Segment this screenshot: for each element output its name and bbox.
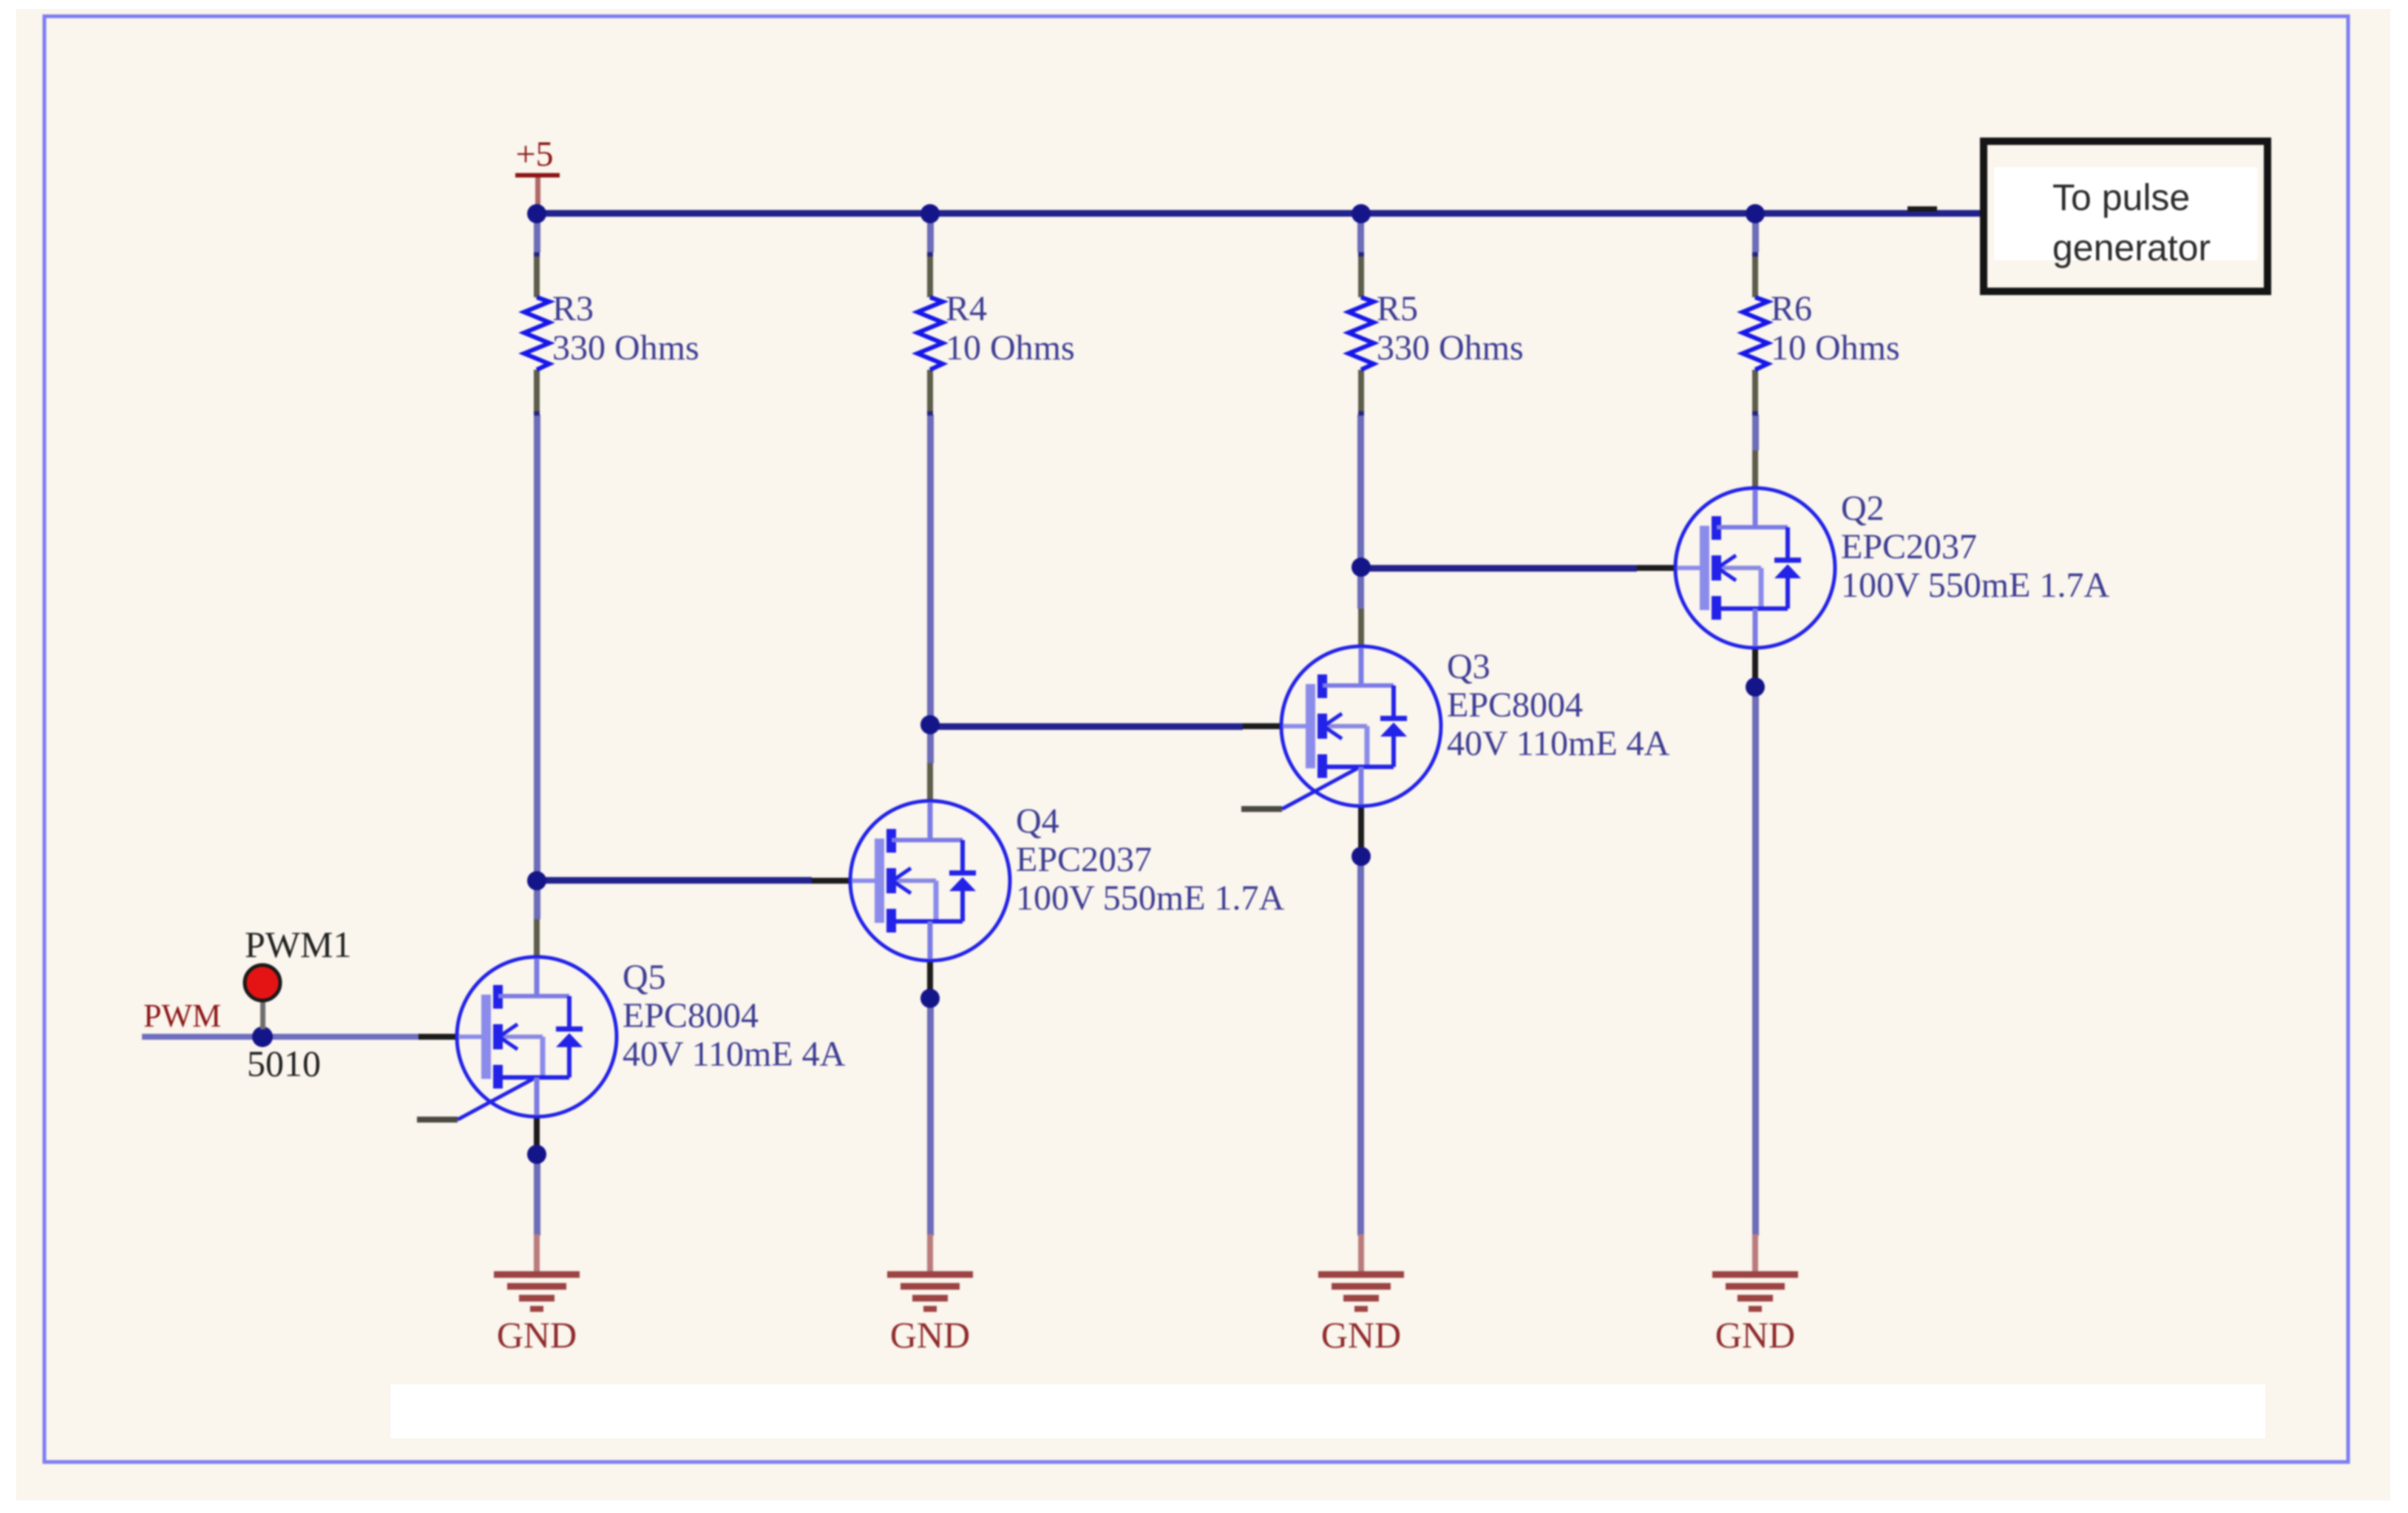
svg-text:GND: GND — [1715, 1314, 1795, 1355]
svg-text:R5: R5 — [1377, 289, 1418, 328]
svg-text:5010: 5010 — [247, 1043, 321, 1084]
svg-text:To pulse: To pulse — [2052, 177, 2190, 218]
svg-text:40V 110mE 4A: 40V 110mE 4A — [1447, 724, 1670, 763]
svg-text:GND: GND — [890, 1314, 970, 1355]
svg-text:EPC2037: EPC2037 — [1016, 840, 1152, 879]
svg-text:100V 550mE 1.7A: 100V 550mE 1.7A — [1841, 566, 2109, 605]
svg-text:Q5: Q5 — [623, 958, 666, 997]
svg-text:R4: R4 — [946, 289, 987, 328]
svg-text:PWM: PWM — [143, 998, 221, 1034]
svg-text:GND: GND — [1321, 1314, 1401, 1355]
svg-text:10 Ohms: 10 Ohms — [946, 328, 1075, 368]
svg-text:330 Ohms: 330 Ohms — [1377, 328, 1524, 368]
svg-text:EPC2037: EPC2037 — [1841, 527, 1977, 566]
svg-text:+5: +5 — [515, 135, 553, 174]
svg-text:R6: R6 — [1771, 289, 1812, 328]
svg-text:100V 550mE 1.7A: 100V 550mE 1.7A — [1016, 879, 1284, 918]
svg-text:10 Ohms: 10 Ohms — [1771, 328, 1900, 368]
svg-text:R3: R3 — [552, 289, 594, 328]
svg-text:EPC8004: EPC8004 — [1447, 686, 1583, 725]
svg-text:330 Ohms: 330 Ohms — [552, 328, 699, 368]
svg-text:PWM1: PWM1 — [245, 924, 351, 965]
svg-text:40V 110mE 4A: 40V 110mE 4A — [623, 1035, 846, 1074]
svg-text:GND: GND — [497, 1314, 577, 1355]
svg-text:EPC8004: EPC8004 — [623, 996, 759, 1035]
svg-text:Q3: Q3 — [1447, 647, 1490, 686]
svg-text:generator: generator — [2052, 227, 2211, 268]
svg-text:Q2: Q2 — [1841, 489, 1885, 528]
svg-text:Q4: Q4 — [1016, 802, 1059, 841]
